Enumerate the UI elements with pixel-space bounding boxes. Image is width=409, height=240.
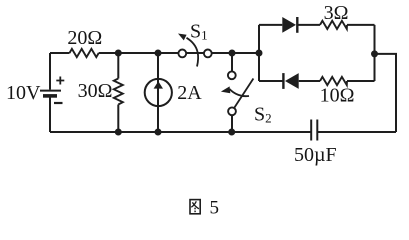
svg-text:30Ω: 30Ω [78,80,113,102]
svg-text:50µF: 50µF [294,144,337,166]
svg-text:S2: S2 [254,104,272,126]
svg-text:20Ω: 20Ω [67,27,102,49]
svg-text:10Ω: 10Ω [320,85,355,107]
svg-text:2A: 2A [177,82,202,104]
svg-text:3Ω: 3Ω [324,2,349,24]
svg-text:10V: 10V [6,82,41,104]
svg-text:S1: S1 [190,21,208,43]
svg-text:5: 5 [210,197,220,218]
